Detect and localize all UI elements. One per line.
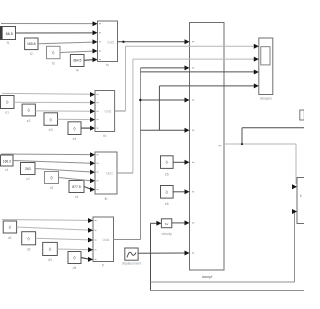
wire E2 to fd — [35, 110, 91, 112]
arrowhead into dampf port2 — [185, 65, 190, 70]
wire D1 to fr — [17, 227, 89, 230]
arrowhead into fr port2 — [88, 228, 93, 233]
wire F3 to fs — [60, 51, 93, 52]
source block E1 — [1, 96, 15, 109]
wire fd output — [115, 110, 126, 112]
svg-text:f3: f3 — [52, 62, 55, 66]
arrowhead into fr port5 — [88, 257, 93, 262]
arrowhead into fb port2 — [90, 161, 95, 166]
scope Scope1 — [259, 38, 273, 95]
arrowhead into fd port1 — [90, 92, 95, 97]
riser fr output up — [140, 68, 142, 240]
constant block C4 — [69, 181, 84, 193]
wire M1 to dampf port5 — [173, 161, 185, 163]
riser scope in4 — [158, 86, 160, 130]
arrowhead into fd port2 — [90, 100, 95, 105]
svg-text:e2: e2 — [27, 119, 31, 123]
svg-text:e3: e3 — [49, 128, 53, 132]
svg-text:877.5: 877.5 — [72, 185, 81, 189]
arrowhead into R2 port1 — [292, 184, 297, 189]
svg-text:d1: d1 — [8, 236, 12, 240]
arrowhead into fd port5 — [90, 126, 95, 131]
source block D1 — [3, 221, 16, 233]
riser fb output up — [132, 59, 134, 173]
arrowhead into Scope1 in4 — [254, 83, 259, 88]
wire D4 to fr — [81, 258, 89, 260]
svg-text:Out1: Out1 — [106, 172, 113, 176]
riser B1 to R2 port2 — [294, 212, 296, 283]
transfer-fcn block velocity — [161, 219, 171, 228]
arrowhead into fs port5 — [93, 57, 98, 62]
block R1 (cut off) — [300, 110, 305, 120]
arrowhead into fb port5 — [90, 187, 95, 192]
wire C2 to fb — [35, 169, 91, 173]
gain block C3 — [45, 172, 59, 184]
subsystem fs — [98, 21, 118, 62]
wire D2 to fr — [36, 238, 89, 240]
subsystem fb — [95, 152, 117, 194]
arrowhead into fs port4 — [93, 49, 98, 54]
wire fb output — [117, 172, 133, 174]
wire M2 to dampf port6 — [173, 191, 185, 193]
arrowhead into fr port3 — [88, 238, 93, 243]
arrowhead into dampf port4 — [185, 128, 190, 133]
svg-text:f2: f2 — [30, 52, 33, 56]
arrowhead into fr port1 — [88, 218, 93, 223]
riser down to R2 port1 — [295, 144, 297, 184]
arrowhead into dampf port7 — [185, 220, 190, 225]
riser to velocity input — [150, 223, 152, 290]
source block D2 — [22, 232, 36, 245]
gain block F3 — [47, 46, 61, 58]
riser fd output up — [125, 46, 127, 111]
source block M2 — [161, 186, 174, 199]
fcn block displacement — [125, 248, 138, 260]
block R2 (cut off) — [297, 178, 305, 224]
wire C4 to fb — [84, 187, 91, 190]
wire C1 to fb — [13, 161, 91, 164]
constant block F4 — [70, 55, 84, 67]
wire velocity to dampf port7 — [172, 222, 186, 224]
svg-text:c1: c1 — [5, 168, 9, 172]
wire row1 port1 from left edge — [1, 23, 93, 25]
wire E3 to fd — [58, 118, 92, 120]
arrowhead into R2 port2 — [292, 209, 297, 214]
S-function block dampf — [190, 23, 225, 271]
svg-text:Scope1: Scope1 — [260, 97, 272, 101]
svg-text:e1: e1 — [5, 111, 9, 115]
wire D3 to fr — [57, 248, 89, 251]
arrowhead into dampf port6 — [185, 189, 190, 194]
arrowhead into fs port1 — [93, 21, 98, 26]
svg-text:f1: f1 — [7, 41, 10, 45]
source block D3 — [43, 242, 58, 255]
wire to Scope1 input2 — [133, 58, 255, 60]
svg-text:c2: c2 — [26, 177, 30, 181]
source block E3 — [44, 113, 58, 126]
svg-text:$: $ — [300, 194, 302, 198]
source block E4 — [68, 122, 81, 135]
svg-text:c3: c3 — [50, 186, 54, 190]
svg-text:Out1: Out1 — [105, 109, 112, 113]
wire to Scope1 input3 — [141, 71, 255, 73]
bottom wire B1 — [151, 281, 295, 283]
svg-text:d4: d4 — [73, 266, 77, 270]
wire to Scope1 input4 — [159, 85, 254, 87]
wire to right edge — [242, 127, 304, 129]
wire into velocity — [151, 222, 158, 224]
arrowhead into dampf port1 — [185, 39, 190, 44]
arrowhead into Scope1 in2 — [254, 57, 259, 62]
wire row3 port1 from left edge — [1, 153, 91, 156]
arrowhead into fb port3 — [90, 170, 95, 175]
svg-text:e4: e4 — [73, 137, 77, 141]
wire dampf output — [224, 143, 296, 145]
arrowhead into Scope1 in1 — [254, 44, 259, 49]
arrowhead into fb port4 — [90, 178, 95, 183]
wire row2 port1 from left edge — [2, 92, 91, 95]
svg-text:displacement: displacement — [122, 262, 142, 266]
svg-text:d3: d3 — [48, 258, 52, 262]
wire to Scope1 input1 — [126, 45, 255, 47]
svg-text:166.3: 166.3 — [3, 159, 11, 163]
arrowhead into fs port3 — [93, 39, 98, 44]
wire displacement to dampf port8 — [138, 252, 185, 254]
wire F4 to fs — [84, 59, 93, 62]
arrowhead into fd port3 — [90, 109, 95, 114]
wire to dampf port3 — [140, 99, 185, 101]
svg-text:c4: c4 — [75, 195, 79, 199]
wire row4 port1 from left edge — [2, 219, 89, 222]
svg-text:364.5: 364.5 — [73, 59, 82, 63]
svg-text:e6: e6 — [165, 202, 169, 206]
subsystem fd — [95, 91, 115, 132]
svg-text:66.5: 66.5 — [6, 32, 13, 36]
arrowhead into Scope1 in3 — [254, 70, 259, 75]
svg-text:velocity: velocity — [161, 232, 172, 236]
svg-text:263: 263 — [25, 167, 31, 171]
wire fr output — [114, 239, 141, 241]
wire to dampf port2 — [141, 67, 186, 69]
svg-text:f4: f4 — [76, 69, 79, 73]
svg-text:dampf: dampf — [202, 275, 213, 279]
subsystem fr — [93, 217, 114, 262]
constant block C2 — [21, 163, 36, 175]
arrowhead into dampf port8 — [185, 251, 190, 256]
arrowhead into fd port4 — [90, 117, 95, 122]
source block D4 — [68, 252, 81, 264]
source block E2 — [22, 104, 35, 116]
wire E4 to fd — [81, 127, 91, 129]
wire C3 to fb — [59, 178, 92, 181]
constant block F2 — [25, 38, 38, 50]
riser dampf output up — [241, 128, 243, 144]
svg-text:fs: fs — [106, 63, 109, 67]
svg-text:Out1: Out1 — [103, 238, 110, 242]
arrowhead into fb port1 — [90, 152, 95, 157]
arrowhead into fr port4 — [88, 247, 93, 252]
svg-text:d2: d2 — [27, 247, 31, 251]
svg-text:fd: fd — [103, 134, 106, 138]
arrowhead into velocity — [156, 221, 161, 226]
arrowhead into fs port2 — [93, 30, 98, 35]
wire to dampf port4 — [141, 129, 186, 131]
arrowhead into dampf port5 — [185, 160, 190, 165]
svg-text:fb: fb — [105, 197, 108, 201]
wire E1 to fd — [14, 101, 91, 103]
constant block F1 — [1, 27, 16, 40]
source block M1 — [161, 156, 174, 169]
wire fs output to dampf port1 — [118, 41, 186, 43]
constant block C1 — [1, 155, 14, 166]
wire F1 to fs — [16, 32, 94, 34]
wire F2 to fs — [38, 42, 93, 44]
svg-text:Out1: Out1 — [107, 40, 114, 44]
svg-text:e5: e5 — [165, 172, 169, 176]
bottom wire B2 — [151, 290, 305, 292]
arrowhead into dampf port3 — [185, 98, 190, 103]
svg-text:165.8: 165.8 — [27, 42, 36, 46]
